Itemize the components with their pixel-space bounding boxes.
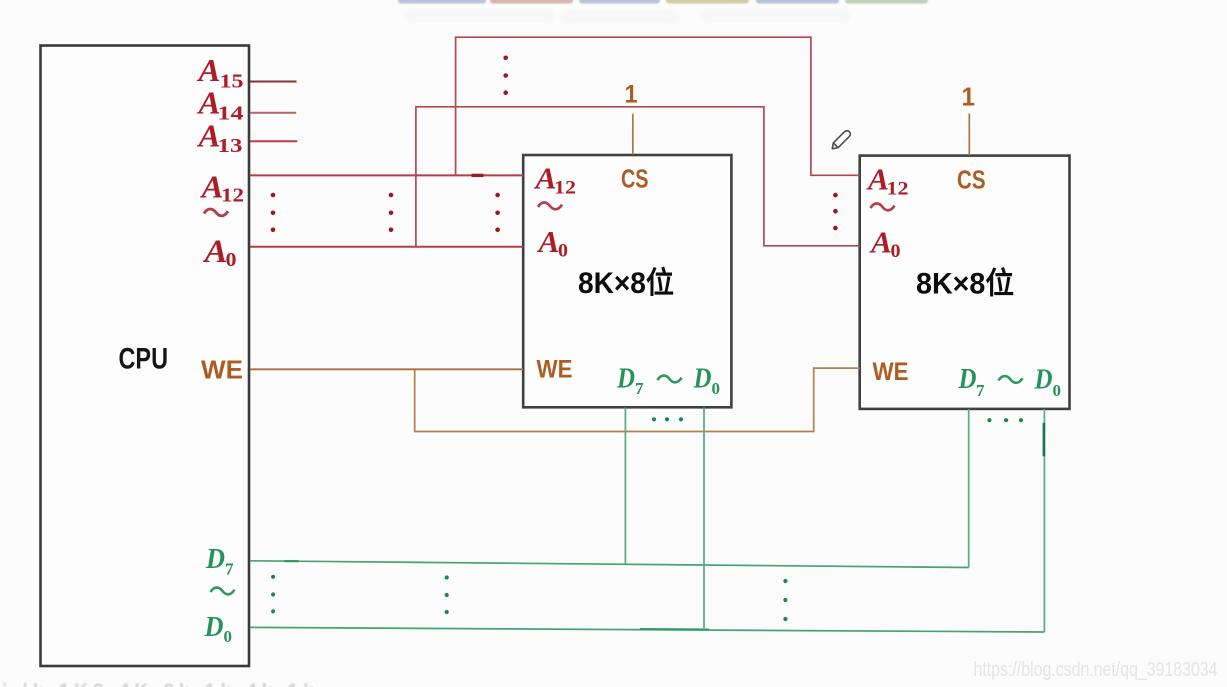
svg-text:A: A	[196, 52, 220, 88]
svg-text:0: 0	[226, 249, 237, 271]
svg-text:WE: WE	[537, 356, 573, 384]
label D7~D0 (U2)	[958, 364, 1061, 400]
chip U2 box	[860, 156, 1070, 409]
node dots address column 3	[495, 193, 500, 232]
svg-text:WE: WE	[873, 358, 909, 386]
label D7~D0 (U1)	[616, 364, 720, 399]
wire A12 branch to U2	[456, 37, 860, 175]
tilde (U2)	[871, 204, 895, 211]
wire A0 bus CPU to U1	[250, 246, 523, 248]
tilde (CPU address)	[204, 209, 228, 216]
chip U1 box	[523, 155, 731, 407]
svg-text:7: 7	[635, 379, 644, 398]
svg-text:12: 12	[554, 178, 576, 199]
label A0 (U1)	[536, 224, 568, 262]
tilde (U1)	[538, 203, 562, 210]
node dots data column 1	[271, 575, 275, 614]
label A15	[196, 52, 243, 93]
node dots data under U2	[987, 418, 1023, 422]
pencil cursor icon	[830, 129, 852, 151]
label A14	[196, 85, 243, 125]
toolbar button bottoms at top edge	[398, 0, 928, 4]
svg-text:D: D	[693, 364, 712, 395]
wire U1 D0 pin down	[703, 408, 705, 631]
svg-text:D: D	[205, 544, 225, 575]
svg-text:0: 0	[224, 627, 233, 646]
svg-text:i lk 1K2 4K 2k 1k 4k 1k: i lk 1K2 4K 2k 1k 4k 1k	[2, 681, 319, 687]
label A12 (U1)	[533, 161, 576, 199]
svg-text:1: 1	[625, 81, 638, 109]
svg-text:D: D	[616, 364, 635, 395]
svg-text:7: 7	[976, 381, 985, 400]
svg-text:D: D	[958, 364, 977, 395]
svg-text:0: 0	[558, 241, 568, 262]
bottom faint scribbles	[2, 681, 319, 687]
svg-text:8K×8位: 8K×8位	[916, 267, 1014, 301]
wire U1 D7 pin down	[624, 408, 626, 565]
label A13	[196, 118, 242, 158]
label A0 (CPU)	[202, 234, 236, 271]
wire A12 bus CPU to U1	[250, 174, 523, 176]
junction dash on A12 wire	[472, 174, 484, 177]
svg-text:1: 1	[962, 82, 976, 112]
wire A13 stub	[250, 140, 297, 142]
wire A15 stub	[250, 81, 297, 83]
tilde (CPU data)	[211, 588, 235, 595]
svg-text:0: 0	[1053, 381, 1062, 400]
node dots data under U1	[652, 417, 683, 421]
label A0 (U2)	[869, 225, 901, 263]
wire D7 bus dark dash	[284, 560, 298, 562]
node dots address column 2	[389, 193, 394, 232]
wire A0 branch to U2	[416, 107, 860, 247]
svg-text:7: 7	[225, 560, 234, 579]
svg-text:A: A	[869, 225, 892, 260]
node dots data column 3	[783, 579, 787, 621]
label A12 (CPU)	[199, 169, 244, 207]
svg-text:CS: CS	[957, 165, 986, 195]
wire 1 to CS (U2)	[968, 113, 970, 155]
svg-text:A: A	[199, 169, 223, 205]
svg-text:13: 13	[218, 135, 243, 157]
node dots top bundle	[503, 56, 508, 95]
wire D7 bus	[250, 561, 969, 568]
svg-text:15: 15	[220, 71, 244, 93]
svg-text:A: A	[202, 234, 227, 270]
svg-text:WE: WE	[201, 355, 243, 385]
node dots at U2 address input	[833, 193, 838, 231]
label A12 (U2)	[866, 162, 909, 200]
wire U2 D0 dark segment	[1043, 423, 1046, 457]
svg-text:8K×8位: 8K×8位	[578, 266, 674, 300]
wire WE CPU to U1	[250, 368, 523, 370]
node dots address column 1	[271, 193, 276, 232]
svg-text:0: 0	[712, 379, 721, 398]
svg-text:CPU: CPU	[119, 343, 169, 376]
svg-text:https://blog.csdn.net/qq_39183: https://blog.csdn.net/qq_39183034	[974, 658, 1218, 681]
svg-text:D: D	[1034, 365, 1053, 396]
wire U2 D0 pin down	[1043, 409, 1045, 632]
wire D0 bus overlap	[640, 628, 709, 630]
svg-text:0: 0	[891, 241, 901, 262]
wire U2 D7 pin down	[968, 409, 970, 568]
wire 1 to CS (U1)	[632, 114, 634, 155]
label D7 (CPU)	[205, 544, 234, 579]
svg-text:CS: CS	[621, 164, 649, 194]
wire WE branch to U2	[415, 368, 860, 431]
svg-text:A: A	[536, 224, 559, 259]
wire A14 stub	[250, 112, 296, 114]
CPU box	[41, 46, 250, 667]
wire D0 bus	[250, 627, 1044, 632]
svg-text:12: 12	[221, 185, 244, 207]
svg-text:12: 12	[887, 179, 909, 200]
svg-text:14: 14	[218, 103, 244, 125]
label D0 (CPU)	[204, 612, 232, 646]
svg-text:D: D	[204, 612, 224, 643]
node dots data column 2	[445, 575, 449, 614]
